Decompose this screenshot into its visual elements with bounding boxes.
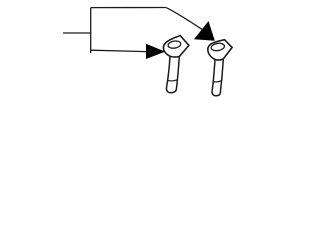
wire: vertical branch bar: [90, 8, 92, 53]
eyebolt pin P1 (left fastener): [163, 36, 188, 93]
pin P1 shaft: [166, 56, 179, 92]
arrowhead A1 pointing right at pin P1: [146, 44, 165, 59]
wire: top branch diagonal to pin 2: [166, 8, 202, 30]
pin P2 head: [208, 40, 232, 60]
pin P2 shaft: [212, 59, 223, 96]
pin P1 shaft collar line: [168, 80, 177, 81]
pin P2 shaft collar line: [213, 81, 222, 82]
pin P2 eye hole: [211, 42, 225, 51]
eyebolt pin P2 (right fastener): [208, 40, 232, 96]
wire: left input lead: [63, 32, 91, 34]
wire: top branch horizontal: [91, 7, 166, 9]
arrowhead A2 pointing down-right at pin P2: [194, 21, 215, 41]
pin P1 eye hole: [168, 40, 182, 49]
wire: bottom branch horizontal to pin 1: [91, 50, 147, 51]
pin P1 head: [163, 36, 188, 57]
